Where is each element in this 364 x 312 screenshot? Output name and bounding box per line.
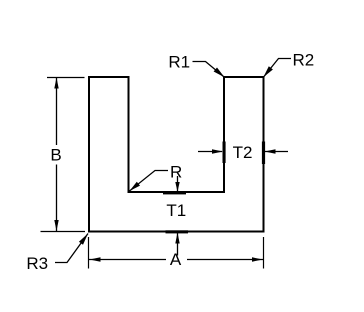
dimension A line right segment (187, 259, 264, 261)
leader line R2 (264, 59, 291, 77)
svg-text:A: A (170, 250, 182, 269)
label R2 (293, 51, 315, 70)
label R3 (26, 254, 48, 273)
label R (170, 163, 182, 182)
label T1 (166, 201, 186, 220)
T2 witness thickening on inner right edge (223, 142, 226, 164)
dimension T1 arrowhead up at outer bottom (175, 233, 179, 244)
label R1 (168, 53, 190, 72)
leader R arrowhead at inner bottom-left corner (130, 182, 141, 191)
svg-text:R1: R1 (168, 53, 190, 72)
dimension T1 lower stem (177, 233, 179, 256)
svg-text:R3: R3 (26, 254, 48, 273)
T1 witness thickening on outer bottom edge (166, 230, 189, 233)
svg-text:T2: T2 (233, 143, 253, 162)
leader R3 arrowhead at bottom-left corner (79, 234, 88, 245)
label T2 (233, 143, 253, 162)
dimension B line upper segment (56, 77, 58, 145)
leader line R (130, 171, 169, 192)
dimension B extension line top (47, 77, 85, 79)
dimension A arrowhead right (252, 257, 263, 261)
leader R1 arrowhead at top-left corner of right leg (214, 68, 225, 78)
dimension A extension line right (263, 237, 265, 269)
dimension A line left segment (89, 259, 166, 261)
label A (170, 250, 182, 269)
leader R2 arrowhead at top-right corner of right leg (263, 66, 273, 77)
dimension B arrowhead up (54, 78, 58, 89)
dimension T2 arrowhead right-pointing (212, 149, 223, 153)
T2 witness thickening on outer right edge (262, 142, 265, 165)
dimension T1 arrowhead down at inner bottom (175, 182, 179, 192)
dimension B line lower segment (56, 165, 58, 232)
dimension T1 upper stem (177, 176, 179, 191)
dimension B arrowhead down (54, 220, 58, 231)
svg-text:R2: R2 (293, 51, 315, 70)
T1 witness thickening on inner bottom edge (163, 191, 186, 194)
label B (50, 146, 61, 165)
dimension T2 left stem (198, 151, 222, 153)
leader line R1 (193, 62, 224, 77)
leader line R3 (55, 234, 88, 263)
svg-text:B: B (50, 146, 61, 165)
dimension T2 right stem (265, 151, 288, 153)
svg-text:T1: T1 (166, 201, 186, 220)
dimension B extension line bottom (41, 231, 86, 233)
dimension A arrowhead left (90, 257, 101, 261)
dimension T2 arrowhead left-pointing (265, 149, 276, 153)
svg-text:R: R (170, 163, 182, 182)
U-channel profile outline (89, 77, 264, 232)
dimension A extension line left (88, 237, 90, 269)
